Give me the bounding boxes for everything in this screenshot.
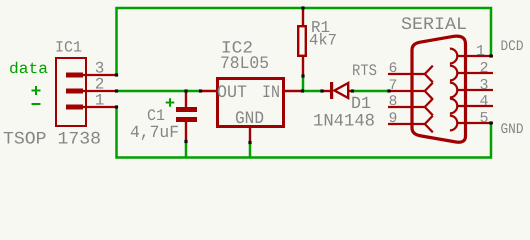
svg-text:data: data [9,60,48,78]
svg-text:4: 4 [479,93,488,110]
svg-text:RTS: RTS [352,62,377,80]
svg-text:4,7uF: 4,7uF [130,124,179,143]
svg-text:GND: GND [501,122,524,138]
svg-text:1N4148: 1N4148 [313,112,375,132]
svg-text:TSOP 1738: TSOP 1738 [3,130,101,150]
svg-text:6: 6 [389,61,398,77]
svg-text:8: 8 [389,94,398,110]
svg-text:3: 3 [479,77,488,94]
svg-text:5: 5 [479,110,488,127]
svg-text:DCD: DCD [501,39,524,55]
svg-text:4k7: 4k7 [309,32,337,50]
svg-text:SERIAL: SERIAL [401,15,467,35]
svg-text:9: 9 [389,111,398,127]
svg-text:C1: C1 [147,107,165,125]
svg-text:1: 1 [476,43,485,60]
svg-text:IC1: IC1 [55,39,82,57]
svg-text:2: 2 [479,60,488,77]
svg-text:IN: IN [262,83,280,103]
svg-text:1: 1 [95,92,105,110]
svg-text:GND: GND [235,109,264,129]
svg-text:78L05: 78L05 [220,54,269,74]
svg-text:OUT: OUT [217,83,247,103]
svg-text:7: 7 [389,78,398,94]
